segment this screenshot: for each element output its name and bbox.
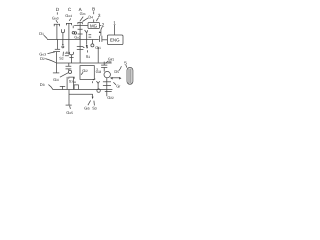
gear below D stem <box>56 40 58 50</box>
straddle gear on F <box>74 85 78 89</box>
rect3 left edge <box>66 77 68 90</box>
stack bar 1 <box>103 81 111 83</box>
output arrow line <box>93 79 95 80</box>
tall gear top bar <box>53 51 60 53</box>
final gear cylinder <box>127 67 133 84</box>
svg-text:5: 5 <box>124 60 127 65</box>
svg-text:D3: D3 <box>40 82 45 87</box>
svg-text:S3: S3 <box>69 80 73 84</box>
small circle pair left <box>72 32 75 35</box>
small circle under arrow <box>62 46 64 48</box>
dog teeth stem <box>66 52 68 54</box>
axis dashes above S1 <box>87 47 89 53</box>
gear Go0 stem <box>56 24 58 39</box>
small bar right of Y <box>89 35 92 37</box>
clutch up arrow <box>99 31 101 33</box>
leader Gi3 <box>96 68 98 69</box>
cup symbol on shaft D <box>61 29 64 33</box>
Y gear cap <box>85 30 88 33</box>
svg-text:S3: S3 <box>92 106 97 111</box>
MG right stub <box>100 25 102 27</box>
gear Gif1 bars <box>101 65 107 67</box>
svg-text:Gif1: Gif1 <box>108 57 115 62</box>
leader S2 <box>62 52 64 57</box>
svg-text:1: 1 <box>113 21 116 26</box>
E line end tick <box>108 61 111 63</box>
svg-text:Gf: Gf <box>116 83 120 88</box>
svg-text:Gi2: Gi2 <box>82 68 88 73</box>
axis dash B upper <box>93 11 95 14</box>
svg-text:C: C <box>68 7 72 12</box>
leader Gm <box>80 17 83 22</box>
svg-text:Go5: Go5 <box>66 110 73 115</box>
gear on F stem <box>62 86 64 89</box>
rect S1 right edge <box>97 47 99 63</box>
rect Gi2 <box>80 66 94 80</box>
svg-text:D1: D1 <box>39 31 44 36</box>
big circle <box>104 71 110 77</box>
leader D3 <box>48 85 52 90</box>
shaft E line <box>56 62 111 64</box>
svg-text:Go4: Go4 <box>65 13 72 18</box>
svg-text:Gif2: Gif2 <box>107 95 114 100</box>
leader 3 <box>97 18 99 22</box>
Y gear lower stem <box>97 83 99 89</box>
small circle below E <box>68 70 71 73</box>
gear Go0 bar <box>54 24 59 26</box>
svg-text:Go0: Go0 <box>52 15 59 20</box>
leader D4 <box>83 18 89 22</box>
leader 1 <box>113 25 115 35</box>
circle stem <box>91 40 93 44</box>
up arrow on plane <box>62 43 64 45</box>
below E stem upper <box>68 63 70 66</box>
circle on F <box>97 89 100 92</box>
sleeve stem <box>70 55 72 63</box>
gear Go4 stem <box>68 23 70 54</box>
circle on C plane <box>91 44 94 47</box>
svg-text:Gi3: Gi3 <box>96 69 102 74</box>
gear Gif1 stem upper <box>103 62 105 65</box>
down arrow mid <box>86 45 88 49</box>
leader Go3 <box>48 52 55 54</box>
tall gear bottom bar <box>53 72 59 74</box>
sleeve cup <box>70 52 74 55</box>
leader 2 <box>101 27 102 36</box>
ENG box <box>107 35 123 45</box>
svg-text:Gi4: Gi4 <box>53 77 59 82</box>
dog teeth bars <box>65 53 69 56</box>
stack bar below F <box>105 91 112 93</box>
branch down <box>92 94 94 97</box>
leader D5 <box>119 66 122 70</box>
axis dash B lower <box>93 19 95 22</box>
stub below shaft B <box>72 26 74 29</box>
MG box <box>88 23 100 29</box>
gear Gif1 stem lower <box>103 68 105 72</box>
branch line <box>69 93 93 95</box>
gear below D bar <box>55 48 60 50</box>
synchro bars <box>77 47 84 50</box>
leader Gf <box>113 82 116 85</box>
leader Gi5 <box>88 100 91 105</box>
rect3 stem <box>73 77 75 89</box>
leader D2 <box>45 59 56 63</box>
svg-text:ENG: ENG <box>110 38 120 43</box>
gear on F bar <box>60 85 65 87</box>
below E dog bars <box>66 66 72 69</box>
branch down arrow <box>92 97 94 100</box>
small bar right of S3 <box>73 81 76 83</box>
rect3 top bar <box>69 77 74 79</box>
stack stem <box>106 78 108 96</box>
svg-text:D5: D5 <box>114 69 119 74</box>
leader Go5 <box>69 106 72 109</box>
svg-text:Gi5: Gi5 <box>84 105 90 110</box>
small circle pair right <box>74 32 76 34</box>
svg-text:D: D <box>56 7 60 12</box>
leader S3 <box>93 101 96 106</box>
gear bars on Gm plane <box>78 29 83 34</box>
shaft F line <box>52 89 112 91</box>
svg-text:S2: S2 <box>59 57 64 61</box>
clutch bar 2 <box>101 36 103 42</box>
shaft B line <box>74 25 88 27</box>
leader Gi2 <box>81 72 83 74</box>
clutch bar 1 <box>98 36 100 42</box>
axis dash below rect2 <box>92 81 94 83</box>
stack bar 2 <box>103 84 111 86</box>
Go5 plane stem <box>68 90 70 106</box>
leader Gi4 <box>60 73 68 78</box>
engine link line <box>102 39 108 41</box>
leader Go0 <box>56 20 58 23</box>
sleeve bar <box>69 57 73 59</box>
svg-text:D4: D4 <box>88 14 93 19</box>
Y gear lower cap <box>97 81 100 83</box>
axis dash D <box>56 12 58 14</box>
svg-text:MG: MG <box>90 23 98 28</box>
leader Go4 <box>69 19 71 21</box>
Go5 bar <box>66 104 72 106</box>
shaft D line <box>47 39 99 41</box>
output arrowhead <box>119 77 121 80</box>
Y gear mid stem <box>86 33 88 45</box>
leader 5 <box>126 65 127 68</box>
svg-text:D2: D2 <box>40 56 45 61</box>
tall gear stem <box>55 52 57 73</box>
gear Gm stem <box>79 23 81 64</box>
leader Gif1 <box>106 61 108 63</box>
up arrow stem <box>62 40 64 44</box>
svg-text:B: B <box>92 7 95 12</box>
svg-text:Go2: Go2 <box>74 35 81 39</box>
gear Go4 bar <box>66 23 71 25</box>
arrowhead into circle <box>110 77 113 80</box>
rect S1 top dashes <box>83 47 85 49</box>
leader D1 <box>44 35 48 39</box>
gear Gm bar <box>78 23 82 25</box>
cylinder inner lines <box>129 69 131 84</box>
svg-text:S1: S1 <box>86 54 91 59</box>
svg-text:Gm: Gm <box>80 11 86 16</box>
below E stem lower <box>68 69 70 71</box>
cup stem <box>62 33 64 40</box>
